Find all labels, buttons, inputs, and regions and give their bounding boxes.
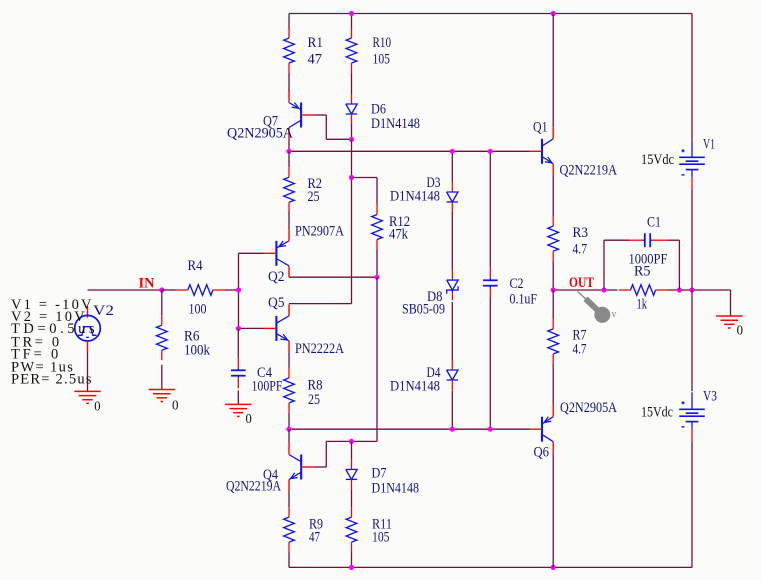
diode D7 — [346, 459, 357, 489]
wire V2 to ground — [87, 352, 89, 391]
svg-text:Q2N2219A: Q2N2219A — [226, 478, 282, 494]
wire rail to C2 — [489, 151, 491, 267]
wire R11 bottom — [351, 552, 353, 567]
svg-text:R4: R4 — [188, 258, 203, 274]
svg-text:47k: 47k — [389, 226, 409, 242]
wire Q5 collector wire — [289, 303, 352, 305]
wire Q2 collector to R12 — [289, 276, 377, 278]
wire Q6 collector — [552, 453, 554, 567]
junction top rail Q1 — [551, 11, 556, 16]
svg-text:15Vdc: 15Vdc — [641, 404, 673, 420]
wire D7 top — [351, 441, 353, 459]
junction C2 bottom node — [488, 427, 493, 432]
junction rail node — [689, 287, 694, 292]
wire right rail bottom — [691, 442, 693, 568]
resistor R4 — [176, 285, 226, 296]
wire Q1 collector — [552, 14, 554, 128]
svg-text:0: 0 — [172, 398, 179, 413]
resistor R3 — [548, 216, 559, 261]
wire R4 to base node — [226, 289, 239, 291]
resistor R12 — [372, 205, 383, 250]
wire upper mid rail — [289, 150, 530, 152]
transistor Q4 — [289, 443, 314, 491]
wire Q2 base — [239, 252, 264, 254]
diode D4 — [447, 360, 458, 390]
wire D7 to R11 — [351, 489, 353, 507]
wire R12 bottom — [376, 250, 378, 278]
wire R12 to Q4 base net — [376, 277, 378, 441]
svg-text:15Vdc: 15Vdc — [641, 152, 674, 168]
svg-text:100: 100 — [189, 301, 207, 317]
svg-text:105: 105 — [372, 529, 390, 545]
resistor R6 — [157, 315, 168, 360]
pulse source V2 — [75, 306, 101, 352]
ground OUT ground — [716, 316, 742, 328]
wire R8 bottom — [288, 413, 290, 429]
junction top rail R10 — [349, 11, 354, 16]
svg-text:47: 47 — [308, 51, 323, 67]
wire D6 net vertical — [351, 139, 353, 303]
wire bottom rail — [289, 566, 692, 568]
wire R1 top — [288, 14, 290, 30]
wire Q4 base net — [314, 441, 377, 467]
wire right rail mid — [691, 190, 693, 391]
svg-text:D1N4148: D1N4148 — [371, 116, 420, 132]
svg-text:1k: 1k — [637, 296, 648, 312]
wire D4 to rail — [451, 390, 453, 429]
svg-text:C1: C1 — [647, 214, 661, 230]
dc source V1 — [679, 140, 705, 190]
junction R12-Q2 node — [374, 275, 379, 280]
capacitor C4 — [231, 358, 246, 389]
svg-text:100PF: 100PF — [252, 378, 283, 394]
junction mid rail left — [286, 427, 291, 432]
junction R5 right node — [677, 287, 682, 292]
wire R3 to OUT — [552, 261, 554, 290]
svg-text:IN: IN — [139, 275, 156, 291]
junction D4 bottom node — [450, 427, 455, 432]
svg-text:C2: C2 — [510, 276, 524, 292]
voltage probe — [578, 292, 611, 323]
svg-text:OUT: OUT — [569, 275, 594, 291]
svg-text:Q6: Q6 — [534, 444, 550, 460]
svg-text:47: 47 — [309, 529, 320, 545]
svg-text:V2: V2 — [93, 303, 114, 319]
resistor R1 — [284, 28, 295, 73]
diode D3 — [447, 182, 458, 212]
svg-text:0.1uF: 0.1uF — [510, 291, 538, 307]
svg-text:4.7: 4.7 — [573, 241, 588, 257]
svg-text:Q2: Q2 — [268, 269, 285, 285]
ground C4 ground — [225, 404, 251, 416]
transistor Q6 — [529, 405, 553, 453]
svg-text:0: 0 — [94, 399, 100, 414]
diode D8 — [447, 270, 458, 300]
wire V2 to IN — [88, 289, 165, 291]
svg-text:PN2907A: PN2907A — [295, 223, 345, 239]
junction base node — [236, 287, 241, 292]
junction OUT node — [551, 287, 556, 292]
wire R2 top — [288, 151, 290, 167]
svg-text:100k: 100k — [184, 342, 211, 358]
wire IN to R6 — [161, 290, 163, 315]
svg-text:PER= 2.5us: PER= 2.5us — [11, 371, 92, 387]
junction bottom rail R11 — [349, 565, 354, 570]
svg-text:v: v — [612, 309, 617, 320]
svg-text:1000PF: 1000PF — [629, 251, 668, 267]
wire R10 top — [351, 14, 353, 30]
wire C4 to ground — [237, 390, 239, 404]
transistor Q1 — [529, 127, 553, 175]
svg-text:Q2N2905A: Q2N2905A — [560, 400, 618, 416]
wire top rail — [289, 13, 692, 15]
svg-text:V3: V3 — [703, 388, 717, 404]
wire Q7 base to D6 — [314, 115, 352, 139]
ground R6 ground — [149, 390, 175, 402]
diode D6 — [346, 94, 357, 124]
svg-text:D1N4148: D1N4148 — [390, 378, 440, 394]
wire Q4 emitter to R9 — [288, 491, 290, 507]
svg-text:0: 0 — [737, 324, 743, 339]
wire D3 to D8 — [451, 212, 453, 270]
wire rail to D3 — [451, 151, 453, 182]
wire R2 to Q2 — [288, 212, 290, 230]
wire Q1 emitter to R3 — [552, 175, 554, 216]
junction R12 branch — [349, 175, 354, 180]
wire C1 loop — [604, 240, 679, 290]
svg-text:105: 105 — [373, 51, 391, 67]
svg-text:R10: R10 — [373, 35, 392, 51]
resistor R11 — [346, 507, 357, 552]
ground V2 ground — [74, 391, 100, 403]
svg-text:Q5: Q5 — [268, 295, 285, 311]
resistor R7 — [548, 319, 559, 364]
svg-text:D7: D7 — [372, 465, 387, 481]
wire R6 to ground — [161, 365, 163, 390]
svg-text:R3: R3 — [573, 225, 589, 241]
svg-text:25: 25 — [308, 392, 320, 408]
junction Q5 base node — [236, 326, 241, 331]
wire IN to R4 — [162, 289, 176, 291]
wire mid rail — [289, 428, 530, 430]
capacitor C2 — [483, 268, 498, 299]
junction C1 branch node — [601, 287, 606, 292]
junction D7 node — [349, 439, 354, 444]
junction IN node — [159, 287, 164, 292]
svg-text:Q2N2219A: Q2N2219A — [560, 162, 618, 178]
resistor R2 — [284, 167, 295, 212]
svg-text:SB05-09: SB05-09 — [402, 301, 445, 317]
wire C4 top — [237, 328, 239, 357]
resistor R10 — [346, 28, 357, 73]
svg-text:PN2222A: PN2222A — [295, 341, 345, 357]
svg-text:Q1: Q1 — [533, 119, 548, 135]
junction rail left node — [286, 149, 291, 154]
junction D6-Q7 node — [349, 137, 354, 142]
wire C2 bottom — [489, 298, 491, 429]
svg-text:D1N4148: D1N4148 — [372, 480, 420, 496]
dc source V3 — [679, 392, 705, 442]
wire base column — [238, 253, 240, 328]
resistor R9 — [284, 507, 295, 552]
resistor R8 — [284, 368, 295, 413]
wire R1 to Q7 — [288, 73, 290, 92]
svg-text:0: 0 — [246, 412, 252, 427]
svg-text:25: 25 — [308, 189, 320, 205]
wire Q5 base — [239, 327, 264, 329]
wire R10 to D6 — [351, 73, 353, 94]
svg-text:4.7: 4.7 — [573, 341, 587, 357]
wire R9 bottom — [288, 552, 290, 567]
svg-text:R1: R1 — [308, 35, 324, 51]
junction bottom rail Q6 — [551, 565, 556, 570]
svg-text:V1: V1 — [703, 136, 715, 152]
wire OUT to R7 — [552, 290, 554, 319]
wire Q5 emitter to R8 — [288, 352, 290, 368]
transistor Q5 — [264, 304, 289, 352]
wire Q4 collector wire — [288, 429, 290, 443]
junction C2 top node — [488, 149, 493, 154]
wire R7 to Q6 — [552, 364, 554, 405]
capacitor C1 — [630, 233, 667, 247]
transistor Q2 — [264, 229, 289, 277]
transistor Q7 — [289, 91, 314, 139]
resistor R5 — [619, 285, 669, 296]
wire D8 to D4 — [451, 302, 453, 360]
wire D6 to node — [351, 124, 353, 139]
wire right rail top — [691, 14, 693, 141]
svg-text:Q2N2905A: Q2N2905A — [227, 125, 294, 141]
junction D3 top node — [450, 149, 455, 154]
svg-text:D1N4148: D1N4148 — [390, 188, 440, 204]
wire to R12 — [352, 178, 378, 205]
wire Q7 collector — [288, 139, 290, 151]
wire OUT wire — [553, 290, 730, 316]
